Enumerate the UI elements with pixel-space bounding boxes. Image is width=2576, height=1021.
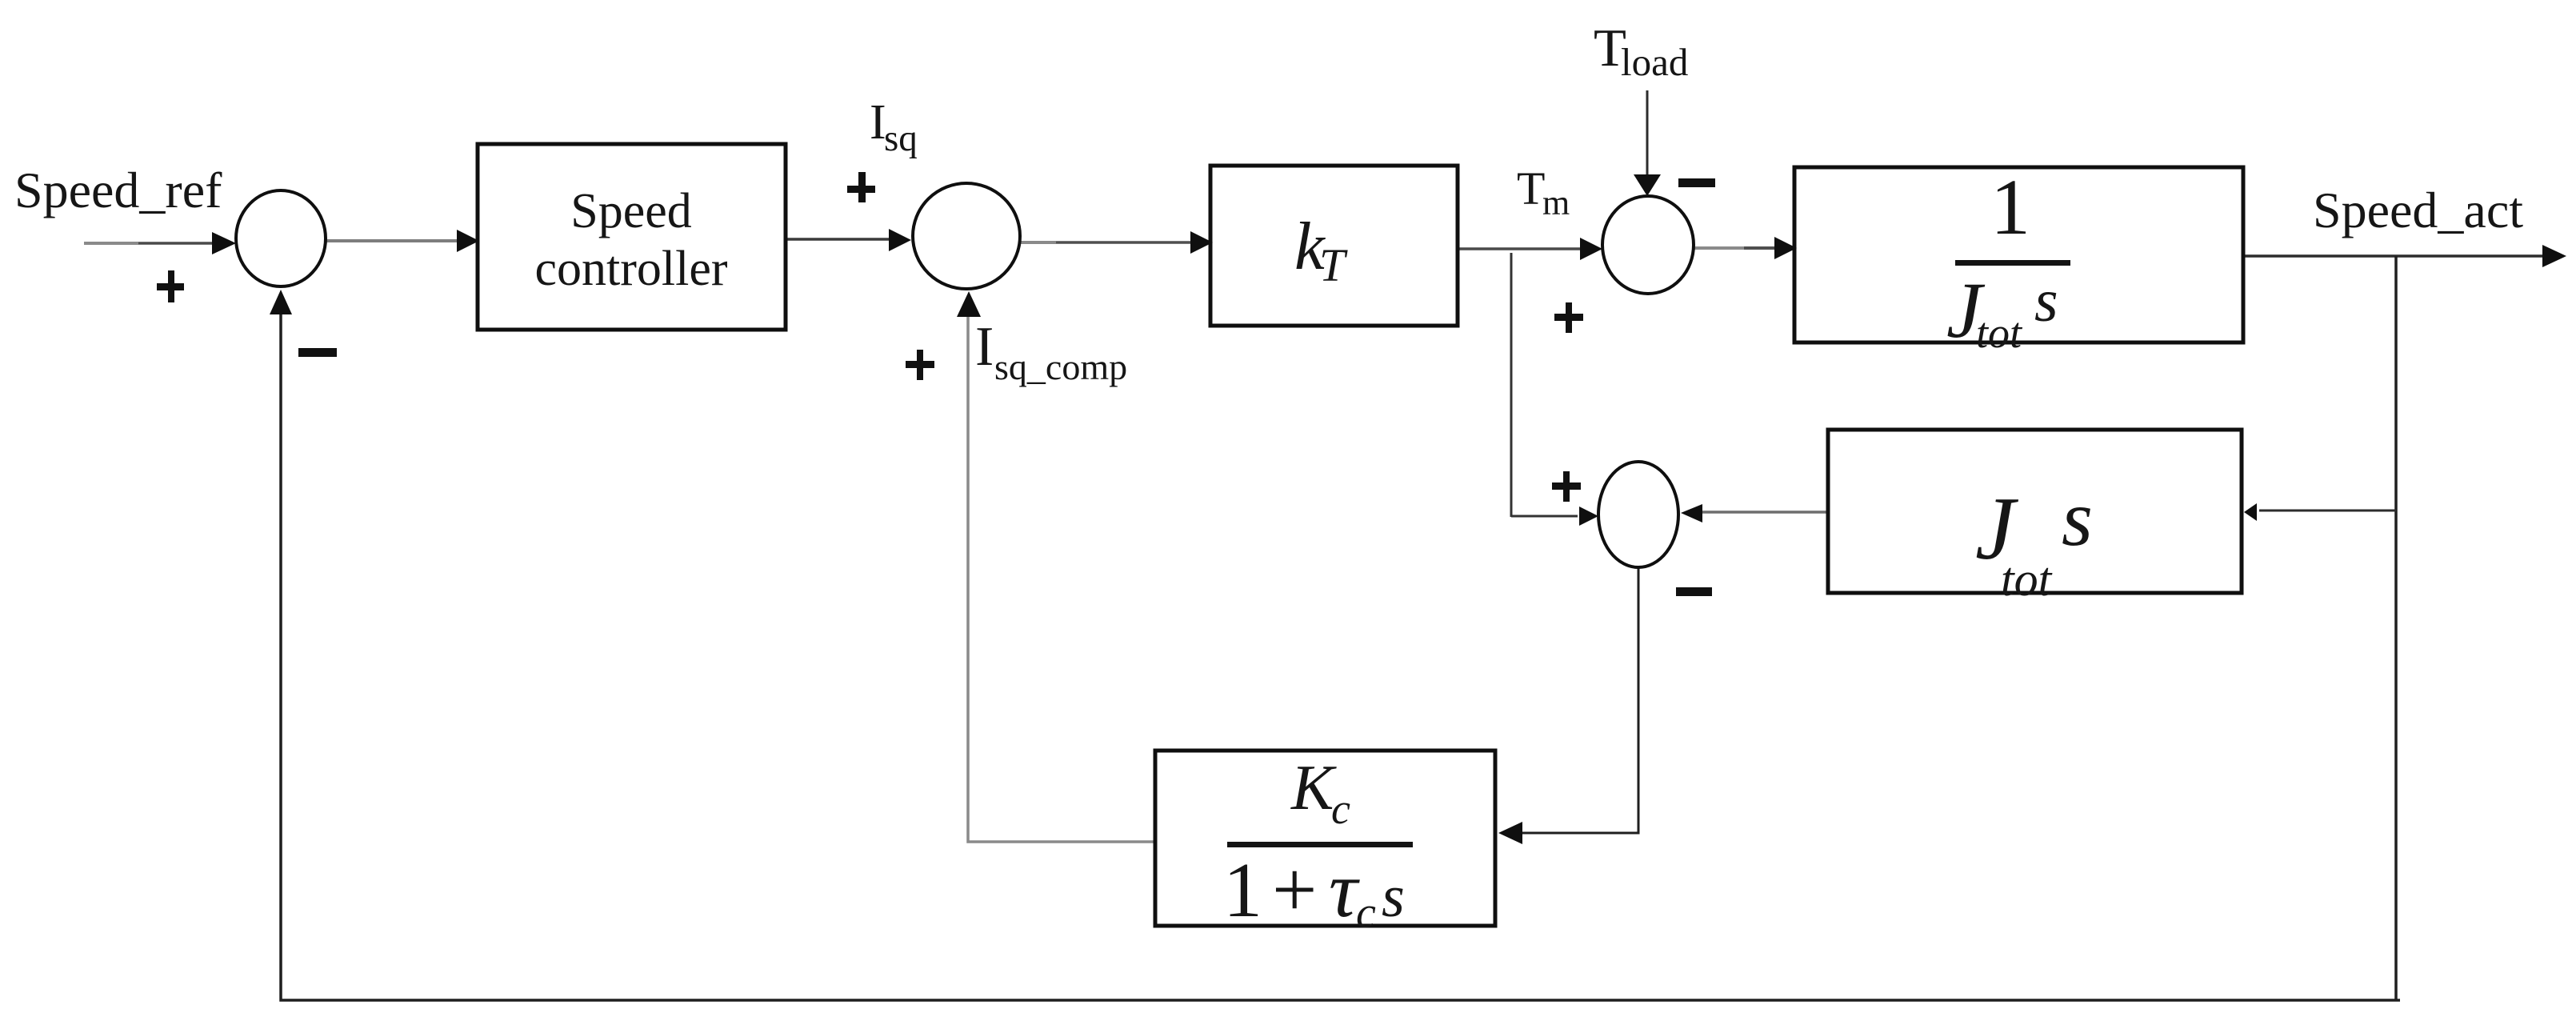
svg-text:m: m bbox=[1542, 183, 1570, 222]
wire Speed_act output bbox=[2243, 254, 2544, 258]
svg-text:c: c bbox=[1331, 785, 1350, 833]
arrowhead T_load into S3 (down) bbox=[1634, 174, 1661, 196]
svg-text:1: 1 bbox=[1223, 847, 1262, 934]
summing junction S3 (torque) bbox=[1602, 196, 1694, 294]
svg-text:Speed: Speed bbox=[570, 184, 692, 238]
summing junction S4 (torque observer) bbox=[1598, 462, 1678, 567]
arrowhead into S1 bbox=[212, 232, 236, 254]
wire bottom feedback from right vertical to S1 bbox=[281, 296, 2400, 1000]
summing junction S1 (speed error) bbox=[236, 190, 326, 286]
svg-text:s: s bbox=[2034, 267, 2058, 334]
block: Kc / (1 + tau_c s) bbox=[1155, 751, 1495, 926]
svg-text:Speed_act: Speed_act bbox=[2313, 182, 2523, 238]
sign plus at S2 Isq_comp input bbox=[906, 350, 934, 380]
sign minus at S3 T_load input bbox=[1678, 178, 1715, 187]
svg-text:1: 1 bbox=[1990, 162, 2030, 251]
svg-text:T: T bbox=[1319, 239, 1348, 291]
wire S3 to 1/Jtots block bbox=[1694, 246, 1744, 250]
svg-text:+: + bbox=[1272, 845, 1317, 934]
sign minus at S4 feedback bbox=[1676, 587, 1712, 596]
wire Speed_ref input to summing junction S1 bbox=[84, 242, 138, 245]
wire Kc block output left then up to S2 (Isq_comp) bbox=[968, 296, 1155, 842]
arrowhead into Kc block (left) bbox=[1498, 822, 1522, 844]
sign plus at S3 input bbox=[1554, 302, 1583, 333]
svg-text:s: s bbox=[2062, 474, 2093, 563]
arrowhead into S3 bbox=[1580, 238, 1602, 260]
wire Jtots block to summing junction S4 bbox=[1702, 510, 1827, 514]
svg-text:sq_comp: sq_comp bbox=[994, 346, 1127, 387]
svg-text:tot: tot bbox=[2001, 553, 2053, 606]
arrowhead Isq_comp into S2 (up) bbox=[957, 291, 981, 317]
arrowhead into 1/(Jtot s) bbox=[1774, 237, 1797, 259]
svg-text:load: load bbox=[1621, 40, 1688, 84]
wire Speed controller to summing junction S2 bbox=[786, 238, 904, 241]
summing junction S2 (current compensation) bbox=[913, 183, 1020, 289]
arrowhead into S2 bbox=[889, 229, 911, 251]
sign plus at S1 input bbox=[157, 270, 184, 302]
wire S1 to Speed controller bbox=[326, 239, 462, 242]
arrowhead Jtots output into S4 (left) bbox=[1681, 504, 1702, 523]
arrowhead Tm branch into S4 (right) bbox=[1579, 506, 1598, 526]
svg-text:T: T bbox=[1517, 162, 1545, 214]
svg-text:K: K bbox=[1290, 753, 1337, 823]
arrowhead into Speed controller bbox=[457, 230, 479, 252]
block: Jtot s bbox=[1828, 430, 2242, 593]
svg-text:c: c bbox=[1356, 888, 1376, 938]
wire S2 to kT block bbox=[1020, 241, 1056, 244]
svg-text:sq: sq bbox=[884, 118, 918, 159]
wire S4 down and left into Kc block bbox=[1512, 567, 1638, 833]
wire from right vertical into Jtots block bbox=[2259, 510, 2396, 512]
svg-text:controller: controller bbox=[534, 242, 727, 296]
wire branch Tm down to summing junction S4 bbox=[1510, 253, 1513, 517]
wire Speed_act branch down (right vertical) bbox=[2394, 256, 2398, 1001]
svg-text:tot: tot bbox=[1976, 309, 2023, 357]
arrowhead Speed_act output bbox=[2542, 245, 2566, 267]
wire Tm : kT block to summing junction S3 bbox=[1458, 247, 1592, 250]
block: Speed controller bbox=[478, 144, 786, 330]
block: 1/(Jtot s) bbox=[1794, 167, 2243, 342]
wire T_load into S3 bbox=[1646, 90, 1649, 178]
arrowhead feedback into S1 (up) bbox=[270, 290, 292, 314]
sign plus at S2 input bbox=[847, 172, 875, 202]
sign plus at S4 input bbox=[1552, 471, 1581, 502]
arrowhead into Jtot s (left) bbox=[2244, 503, 2257, 521]
svg-text:Speed_ref: Speed_ref bbox=[14, 162, 222, 218]
block: kT bbox=[1210, 166, 1458, 326]
svg-text:I: I bbox=[975, 316, 994, 378]
sign minus at S1 feedback bbox=[298, 348, 337, 357]
svg-text:s: s bbox=[1382, 864, 1405, 930]
arrowhead into kT bbox=[1190, 231, 1213, 254]
